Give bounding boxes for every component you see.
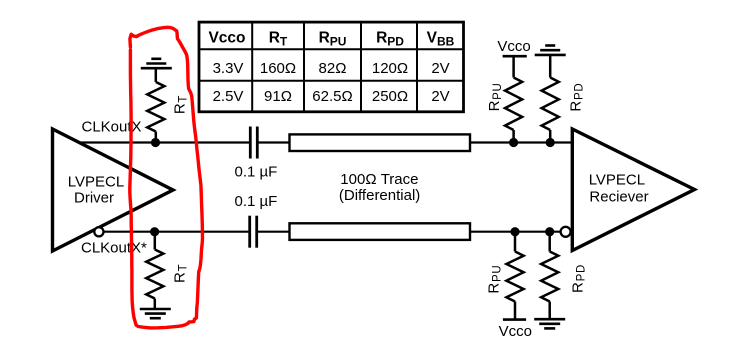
- junction: RPU bottom node: [510, 227, 519, 236]
- op-amp/buffer U2: LVPECL receiver triangle: [572, 129, 694, 251]
- svg-text:91Ω: 91Ω: [264, 88, 292, 105]
- resistor RT (bottom termination): [146, 250, 163, 299]
- junction: RPD top node: [546, 138, 555, 147]
- wire: RT bottom to ground: [154, 299, 157, 310]
- junction: RPD bottom node: [545, 227, 554, 236]
- wire: C2 to bottom trace: [257, 231, 292, 233]
- wire: CLKoutX* node to RT bottom: [154, 232, 157, 250]
- svg-text:LVPECL: LVPECL: [68, 174, 124, 191]
- wire: RT to CLKoutX node: [155, 132, 158, 143]
- svg-text:160Ω: 160Ω: [260, 60, 296, 77]
- label: LVPECL Reciever: [589, 171, 649, 205]
- resistor RT (top termination): [147, 82, 164, 132]
- wire: bottom trace to receiver bubble: [469, 231, 561, 233]
- svg-text:2.5V: 2.5V: [213, 88, 244, 105]
- capacitor C1 0.1uF (top): [250, 127, 257, 159]
- wire: bottom line to RPD bottom: [548, 232, 551, 252]
- wire: Vcco to RPU top: [512, 56, 515, 77]
- wire: ground to RT top: [155, 68, 158, 82]
- svg-text:120Ω: 120Ω: [372, 60, 408, 77]
- wire: CLKoutX line from driver to C1: [78, 141, 251, 143]
- value label 100 Ohm Trace (Differential): [339, 171, 420, 204]
- wire: bottom line to RPU bottom: [514, 232, 517, 252]
- svg-text:Vcco: Vcco: [208, 29, 245, 46]
- power rail bar Vcco (top): [503, 55, 527, 58]
- wire: RPD to top line: [549, 130, 552, 143]
- annotation: red hand-drawn loop around RT resistors: [130, 27, 203, 328]
- transmission line TL2: 100 ohm trace (bottom): [290, 223, 471, 240]
- ground below RPD bottom: [534, 319, 565, 328]
- svg-text:250Ω: 250Ω: [372, 88, 408, 105]
- svg-text:0.1 µF: 0.1 µF: [235, 163, 278, 180]
- wire: C1 to top trace: [257, 141, 291, 143]
- svg-text:100Ω Trace: 100Ω Trace: [340, 171, 418, 188]
- resistor RPU (bottom): [506, 252, 523, 302]
- svg-text:LVPECL: LVPECL: [589, 171, 645, 188]
- capacitor C2 0.1uF (bottom): [250, 216, 257, 248]
- wire: RPU bottom to Vcco rail: [514, 302, 517, 320]
- svg-text:2V: 2V: [431, 88, 449, 105]
- junction: RT/CLKoutX* node: [150, 227, 159, 236]
- ground (inverted) above RPD top: [535, 46, 566, 55]
- table frame: termination value table: [199, 22, 464, 112]
- inversion bubble on driver CLKoutX* output: [94, 227, 103, 236]
- svg-text:CLKoutX*: CLKoutX*: [81, 240, 147, 257]
- resistor RPU (top): [505, 78, 522, 131]
- wire: CLKoutX* line from driver bubble to C2: [103, 231, 250, 233]
- svg-text:0.1 µF: 0.1 µF: [235, 193, 278, 210]
- wire: RPU to top line: [512, 130, 515, 143]
- junction: RT/CLKoutX node: [151, 138, 160, 147]
- wire: ground to RPD top: [549, 55, 552, 78]
- svg-text:2V: 2V: [431, 60, 449, 77]
- op-amp/buffer U1: LVPECL driver triangle: [53, 129, 174, 251]
- svg-text:Vcco: Vcco: [499, 323, 532, 340]
- ground below RT bottom: [140, 309, 171, 318]
- svg-text:3.3V: 3.3V: [213, 60, 244, 77]
- label: LVPECL Driver: [68, 174, 124, 207]
- ground (inverted) above RT top: [141, 59, 172, 68]
- svg-text:62.5Ω: 62.5Ω: [312, 88, 352, 105]
- power rail bar Vcco (bottom): [503, 318, 526, 321]
- transmission line TL1: 100 ohm trace (top): [290, 134, 471, 151]
- svg-text:Driver: Driver: [74, 189, 114, 206]
- resistor RPD (bottom): [541, 252, 558, 302]
- svg-text:(Differential): (Differential): [339, 187, 420, 204]
- resistor RPD (top): [542, 78, 559, 131]
- wire: top trace to receiver input: [469, 141, 571, 143]
- svg-text:82Ω: 82Ω: [319, 60, 347, 77]
- wire: RPD bottom to ground: [548, 302, 551, 320]
- inversion bubble on receiver input: [561, 227, 571, 237]
- svg-text:Reciever: Reciever: [589, 189, 648, 206]
- junction: RPU top node: [509, 138, 518, 147]
- svg-text:Vcco: Vcco: [497, 38, 530, 55]
